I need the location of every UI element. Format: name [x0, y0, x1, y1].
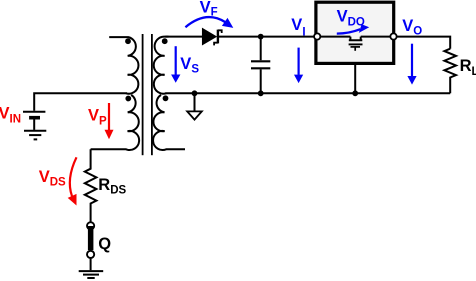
diode D1 (Schottky) [203, 29, 222, 46]
arrow VF (curved) [185, 17, 225, 27]
arrow VDO (curved) [337, 29, 361, 33]
svg-text:VI: VI [291, 16, 305, 39]
svg-text:VIN: VIN [0, 105, 21, 126]
transformer core [143, 34, 152, 155]
battery VIN [23, 112, 45, 130]
wire bottom rail [165, 92, 450, 94]
node capacitor top [258, 34, 264, 40]
capacitor C1 [251, 37, 270, 94]
pin LDO input [314, 33, 320, 39]
dot secondary lower [163, 95, 169, 101]
dot primary upper [125, 38, 131, 44]
svg-text:VF: VF [200, 0, 218, 19]
LDO regulator U1 box [316, 2, 394, 63]
svg-text:RL: RL [460, 57, 476, 78]
arrow VI [298, 48, 300, 75]
ground (secondary, open triangle) [187, 93, 202, 119]
svg-text:Q: Q [98, 235, 111, 253]
svg-text:VS: VS [180, 55, 199, 75]
switch Q [87, 222, 94, 270]
svg-text:VP: VP [88, 106, 107, 127]
arrow VDS (curved) [70, 157, 77, 196]
node ground junction [192, 90, 198, 96]
wire VIN top rail [34, 93, 127, 111]
wire LDO ground [354, 65, 356, 94]
LDO pass transistor (PMOS) [319, 37, 391, 51]
resistor RL [444, 49, 456, 94]
node capacitor bottom [258, 90, 264, 96]
arrow VO [411, 44, 413, 77]
svg-text:VO: VO [402, 17, 422, 38]
wire top rail (diode to box) [219, 36, 317, 38]
transformer T1 primary winding (upper) [109, 37, 138, 94]
svg-text:VDS: VDS [39, 168, 66, 189]
ground (Q) [79, 271, 104, 278]
arrow VP [108, 103, 110, 130]
wire top rail (box to RL) [394, 37, 451, 49]
arrow VS [175, 46, 177, 75]
wire secondary top rail (left of diode) [165, 36, 202, 38]
dot secondary upper [162, 38, 168, 44]
node LDO ground [352, 90, 358, 96]
transformer T1 secondary winding (lower) [153, 95, 185, 150]
transformer T1 secondary winding (upper) [154, 37, 169, 94]
svg-text:RDS: RDS [98, 176, 126, 197]
ground (VIN) [24, 131, 46, 140]
dot primary lower [125, 96, 131, 102]
transformer T1 primary winding (lower) [91, 95, 140, 150]
resistor RDS [85, 149, 97, 221]
pin LDO output [390, 33, 396, 39]
